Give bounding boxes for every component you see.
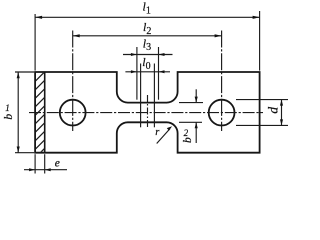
svg-text:l1: l1 <box>143 0 151 16</box>
part outline <box>35 72 260 153</box>
svg-text:1: 1 <box>5 103 10 113</box>
radius leader r <box>157 126 172 143</box>
dimension l3 <box>123 53 173 56</box>
svg-text:e: e <box>55 157 60 169</box>
centerline horizontal <box>29 112 263 114</box>
centerline waist vertical <box>147 95 149 128</box>
clamped strip right boundary <box>44 72 46 153</box>
hole left <box>60 100 86 126</box>
svg-text:r: r <box>155 127 160 138</box>
svg-text:l2: l2 <box>143 20 151 37</box>
dimension l2 <box>73 34 222 37</box>
svg-text:b: b <box>3 114 15 120</box>
gauge zone verticals (l0 extensions, inner pair) <box>140 64 142 128</box>
svg-text:l0: l0 <box>142 55 150 72</box>
dimension l0 <box>125 70 170 73</box>
svg-text:l3: l3 <box>143 36 151 53</box>
svg-text:2: 2 <box>184 128 189 138</box>
dimension e <box>24 154 67 173</box>
centerline left hole vertical (l2 extension) <box>72 31 74 132</box>
dimension d <box>236 100 288 126</box>
dimension l1 <box>35 11 260 71</box>
dimension b2 <box>179 89 203 143</box>
centerline right hole vertical (l2 extension) <box>221 31 223 132</box>
hole right <box>209 100 235 126</box>
waist edge verticals (l3 extensions, outer pair) <box>136 47 138 100</box>
hatching of strip <box>30 56 52 163</box>
svg-text:d: d <box>266 107 281 114</box>
dimension b1 <box>15 72 34 153</box>
